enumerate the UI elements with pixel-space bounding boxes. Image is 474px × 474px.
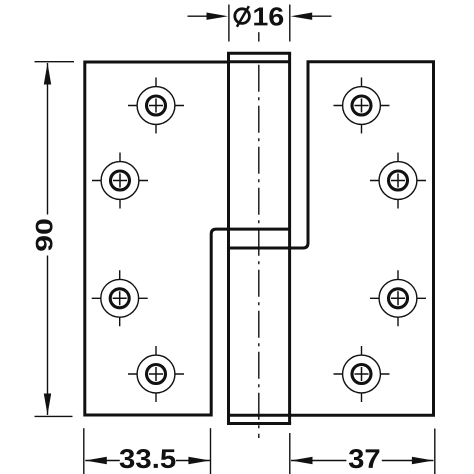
right leaf outline xyxy=(229,62,434,416)
dim 33.5: left extension line xyxy=(83,428,85,474)
screw hole H5 xyxy=(334,78,390,134)
dim 90: text mask xyxy=(33,215,57,256)
screw hole H6 xyxy=(370,153,426,209)
dim 90: down arrow xyxy=(44,394,51,416)
dim 33.5: text mask xyxy=(120,446,176,470)
dim 33.5: left arrow xyxy=(85,457,107,464)
screw hole H3 xyxy=(92,270,148,326)
dim Ø16: label xyxy=(254,7,283,25)
dim Ø16: diameter symbol slash xyxy=(237,6,249,27)
dim Ø16: left leader line xyxy=(188,15,210,17)
centerline (barrel axis, dash-dot) xyxy=(258,32,260,41)
dim 90: dimension line xyxy=(47,63,49,415)
dim 37: right extension line xyxy=(434,429,436,474)
barrel bottom edge xyxy=(227,422,291,425)
screw hole H8 xyxy=(334,346,390,402)
dim Ø16: right leader line xyxy=(311,15,332,17)
dim 33.5: right arrow xyxy=(188,457,210,464)
dim 37: dimension line xyxy=(291,460,433,462)
dim 90: up arrow xyxy=(44,63,51,85)
dim Ø16: left extension line xyxy=(228,5,230,42)
dim 33.5: label xyxy=(120,449,176,468)
dim Ø16: diameter symbol circle xyxy=(235,9,250,24)
barrel right edge xyxy=(288,53,291,423)
dim 90: bottom extension tick xyxy=(35,415,73,417)
centerline lower dashed segment xyxy=(258,65,260,438)
dim 90: top extension tick xyxy=(35,61,75,63)
dim 37: label xyxy=(349,449,379,468)
left leaf outline xyxy=(85,62,290,415)
dim 37: left arrow xyxy=(291,457,313,464)
screw hole H4 xyxy=(128,346,184,402)
dim Ø16: right arrow xyxy=(291,13,313,20)
barrel top edge xyxy=(227,52,291,55)
screw hole H2 xyxy=(92,153,148,209)
dim 90: label xyxy=(36,219,53,250)
dim 37: left extension line xyxy=(289,433,291,474)
dim 37: text mask xyxy=(346,446,381,470)
dim 33.5: dimension line xyxy=(85,460,210,462)
barrel top cap line xyxy=(229,60,290,63)
dim Ø16: right extension line xyxy=(289,5,291,42)
dim 37: right arrow xyxy=(412,457,434,464)
screw hole H7 xyxy=(370,270,426,326)
dim 33.5: right extension line xyxy=(210,428,212,474)
dim Ø16: left arrow xyxy=(207,13,229,20)
barrel left edge xyxy=(227,53,230,423)
screw hole H1 xyxy=(128,78,184,134)
